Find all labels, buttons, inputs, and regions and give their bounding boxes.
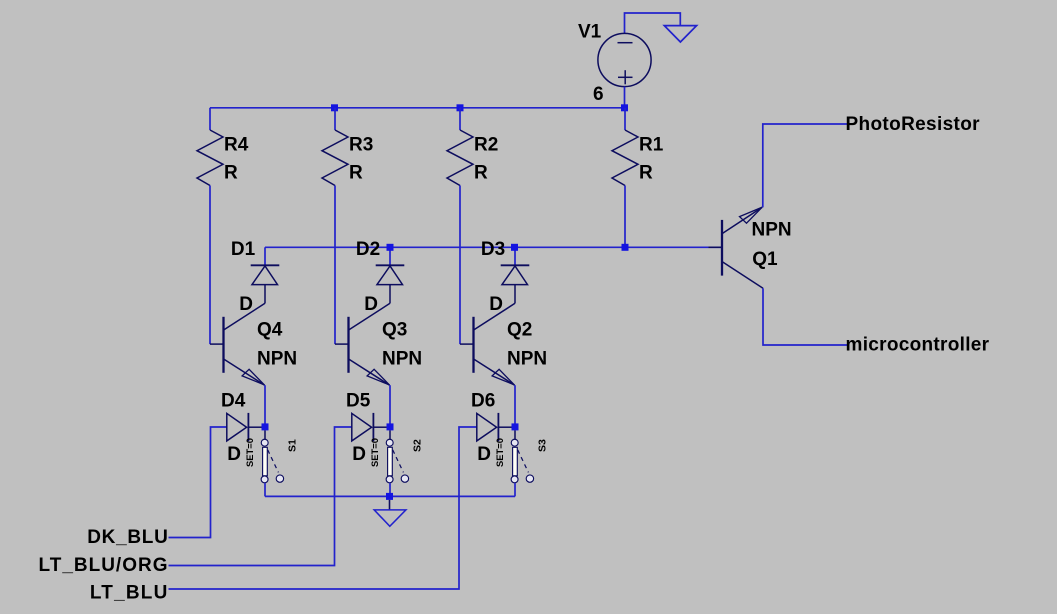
wire node to S2 [389,430,391,439]
wire Q3 emitter down to D5 node [389,385,391,423]
wire D2 top lead [389,247,391,265]
wire node to S3 [514,430,516,439]
wire LT_BLU feed to D6 anode [169,427,477,589]
wire V1 top lead to ground [625,13,681,33]
svg-text:S3: S3 [537,439,549,452]
svg-text:D6: D6 [471,391,495,412]
junction top bus at R3 [331,104,338,111]
svg-text:6: 6 [593,84,604,105]
voltage source V1 [598,33,651,86]
ground symbol at V1 [664,26,696,42]
switch S1 [261,439,283,483]
diode D1 [251,265,280,284]
svg-text:LT_BLU/ORG: LT_BLU/ORG [39,555,169,576]
svg-text:microcontroller: microcontroller [846,335,990,356]
wire Q1 collector to microcontroller [763,288,847,345]
svg-text:NPN: NPN [257,349,297,370]
resistor R3 [322,108,348,186]
wire R2 down to Q2 base [459,186,461,345]
diode D2 [376,265,405,284]
transistor Q2 [460,303,515,385]
svg-text:R: R [224,162,238,183]
wire base-collector bus row [265,246,722,248]
wire bottom bus [265,495,515,497]
svg-text:D5: D5 [346,391,371,412]
junction node D5/S2 [387,423,394,430]
svg-text:D2: D2 [356,239,380,260]
svg-text:D: D [352,444,366,465]
diode D6 [477,413,512,441]
svg-text:LT_BLU: LT_BLU [90,582,169,603]
wire S3 to bottom bus [514,483,516,496]
wire node to S1 [264,430,266,439]
svg-text:PhotoResistor: PhotoResistor [846,114,981,135]
junction bus at D3 [511,244,518,251]
wire S1 to bottom bus [264,483,266,496]
svg-text:V1: V1 [578,22,602,43]
svg-text:D: D [477,444,491,465]
svg-text:NPN: NPN [382,349,422,370]
diode D4 [227,413,262,441]
svg-text:Q1: Q1 [752,249,778,270]
wire DK_BLU feed to D4 anode [169,427,227,538]
svg-text:DK_BLU: DK_BLU [87,527,168,548]
svg-text:R2: R2 [474,135,498,156]
wire top bus [210,107,625,109]
switch S3 [511,439,533,483]
wire R1 down to base bus [624,186,626,248]
resistor R1 [612,108,638,186]
wire S2 to bottom bus [389,483,391,496]
svg-text:NPN: NPN [507,349,547,370]
junction bus at R1 [622,244,629,251]
transistor Q1 [709,207,764,288]
svg-text:R4: R4 [224,135,249,156]
transistor Q4 [210,303,265,385]
svg-text:R: R [349,162,363,183]
svg-text:Q4: Q4 [257,320,283,341]
ground symbol at bottom [374,510,406,526]
wire D2 anode to Q3 collector [389,285,391,304]
junction top bus at R2 [457,104,464,111]
wire Q2 emitter down to D6 node [514,385,516,423]
svg-text:SET=0: SET=0 [369,438,380,467]
svg-text:R: R [474,162,488,183]
wire LT_BLU/ORG feed to D5 anode [169,427,352,566]
diode D3 [501,265,530,284]
wire D1 anode to Q4 collector [264,285,266,304]
svg-text:S1: S1 [287,439,299,452]
wire D3 top lead [514,247,516,265]
transistor Q3 [335,303,390,385]
switch S2 [386,439,408,483]
wire D1 top lead [264,247,266,265]
svg-text:Q3: Q3 [382,320,407,341]
wire Q4 emitter down to D4 node [264,385,266,423]
svg-text:R3: R3 [349,135,373,156]
junction node D6/S3 [512,423,519,430]
diode D5 [352,413,387,441]
wire D3 anode to Q2 collector [514,285,516,304]
wire V1 bottom lead [624,87,626,108]
wire ground stub [389,500,391,510]
svg-text:S2: S2 [412,439,424,452]
svg-text:D: D [227,444,241,465]
svg-text:R1: R1 [639,135,664,156]
wire Q1 emitter to PhotoResistor [763,124,847,207]
resistor R4 [197,108,223,186]
svg-text:SET=0: SET=0 [494,438,505,467]
wire R3 down to Q3 base [334,186,336,345]
svg-text:D4: D4 [221,391,246,412]
svg-text:D1: D1 [231,239,256,260]
junction bottom bus at ground [386,493,393,500]
svg-text:Q2: Q2 [507,320,532,341]
svg-text:SET=0: SET=0 [244,438,255,467]
junction bus at D2 [387,244,394,251]
junction top bus at V1/R1 [621,104,628,111]
svg-text:R: R [639,162,653,183]
resistor R2 [447,108,473,186]
wire R4 down to Q4 base [209,186,211,345]
junction node D4/S1 [262,423,269,430]
svg-text:NPN: NPN [752,220,792,241]
svg-text:D3: D3 [481,239,505,260]
